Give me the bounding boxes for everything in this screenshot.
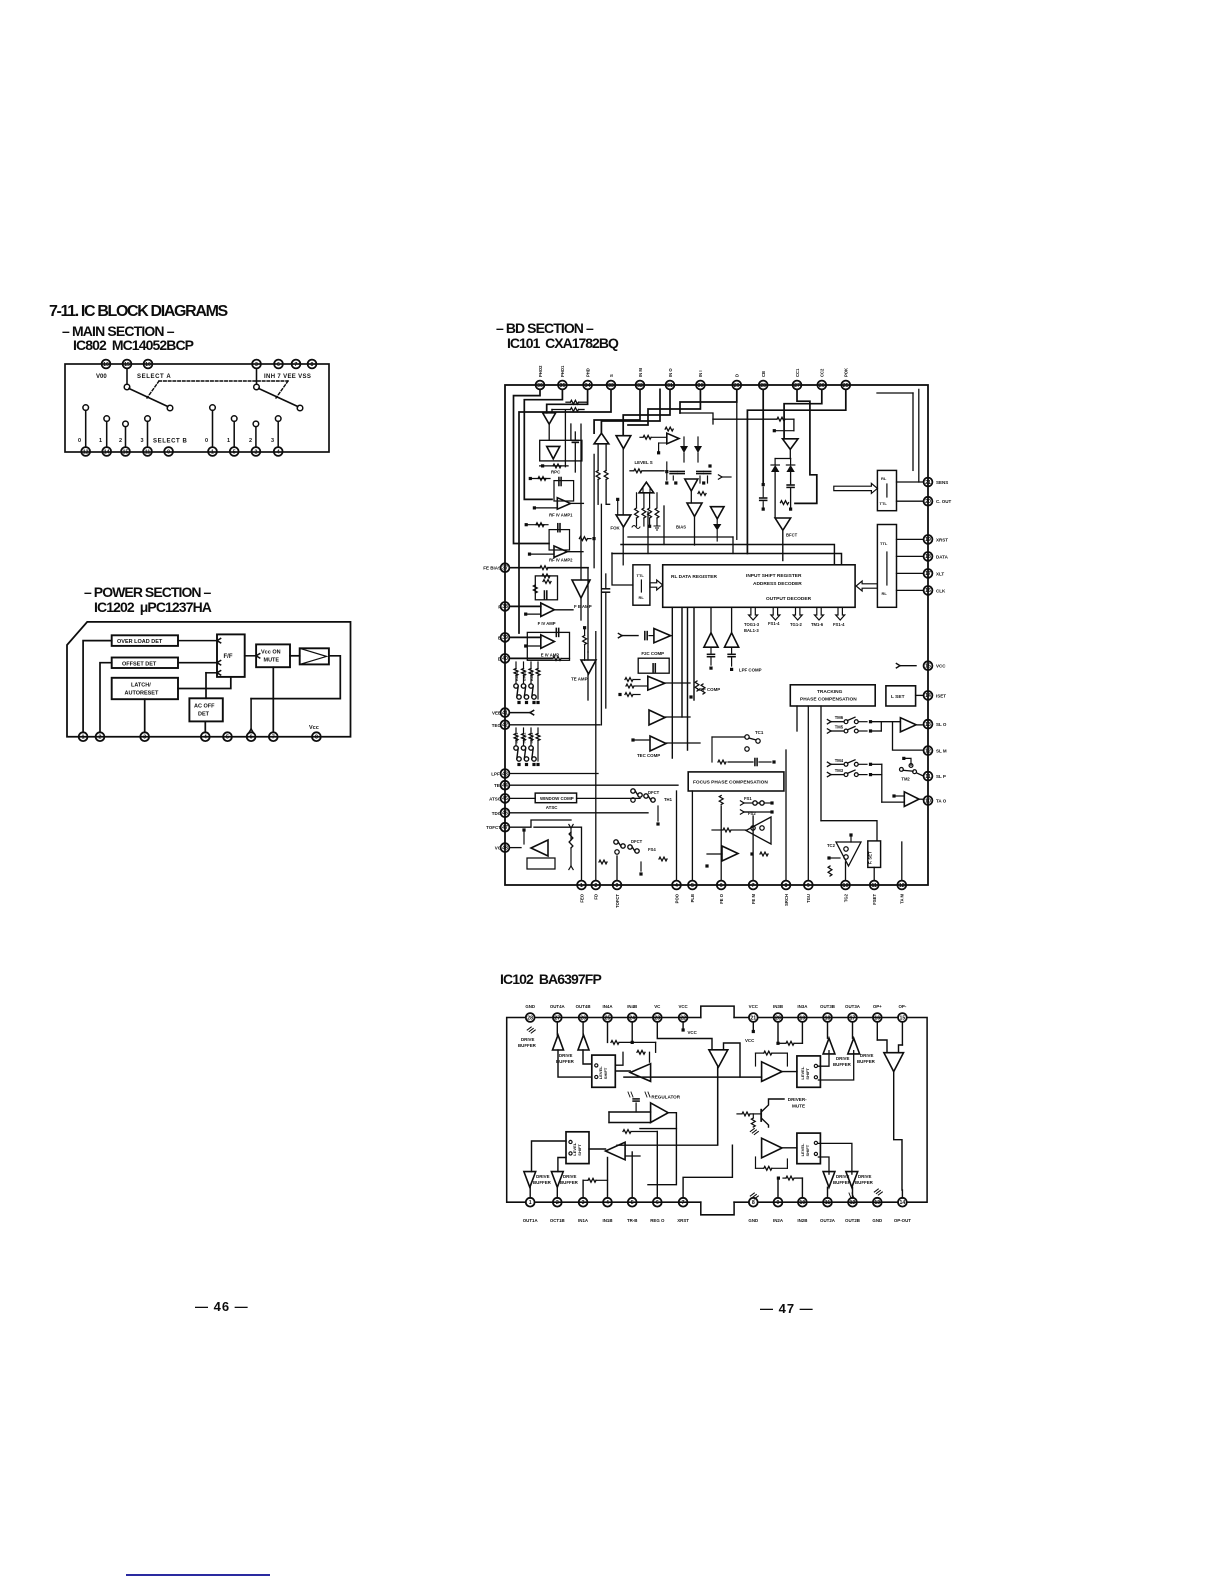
svg-text:Vcc ON: Vcc ON (261, 650, 281, 656)
svg-text:1: 1 (529, 1200, 532, 1206)
svg-text:OUT4A: OUT4A (550, 1004, 566, 1009)
svg-text:VEE: VEE (492, 711, 501, 716)
svg-text:D: D (735, 374, 740, 377)
svg-text:F E AMP: F E AMP (574, 604, 592, 609)
svg-text:FE O: FE O (719, 893, 724, 904)
svg-text:BUFFER: BUFFER (857, 1059, 876, 1064)
svg-text:23: 23 (654, 1015, 660, 1021)
svg-text:5: 5 (691, 883, 694, 889)
svg-text:FS1-4: FS1-4 (833, 622, 845, 627)
svg-text:F/F: F/F (224, 654, 233, 660)
svg-text:WINDOW COMP: WINDOW COMP (540, 796, 574, 801)
svg-text:36: 36 (537, 383, 543, 389)
svg-text:SELECT B: SELECT B (153, 439, 188, 445)
svg-text:MUTE: MUTE (264, 658, 280, 664)
svg-text:ADDRESS DECODER: ADDRESS DECODER (753, 581, 802, 587)
svg-text:VCC: VCC (749, 1004, 759, 1009)
svg-text:RL: RL (639, 595, 645, 600)
svg-text:2: 2 (254, 449, 257, 455)
svg-text:10: 10 (843, 883, 849, 889)
svg-text:VCC: VCC (936, 664, 946, 669)
svg-text:2: 2 (556, 1200, 559, 1206)
svg-text:LATCH/: LATCH/ (131, 683, 151, 689)
svg-text:LPFI: LPFI (491, 772, 501, 777)
svg-text:OUT2B: OUT2B (845, 1218, 860, 1223)
svg-text:19: 19 (925, 537, 931, 543)
svg-text:11: 11 (925, 774, 931, 780)
svg-text:OP-: OP- (898, 1004, 906, 1009)
svg-text:IN4A: IN4A (602, 1004, 613, 1009)
svg-text:13: 13 (874, 1200, 880, 1206)
svg-text:L SET: L SET (891, 694, 905, 700)
svg-text:– POWER SECTION –: – POWER SECTION – (84, 584, 212, 600)
svg-text:SHIFT: SHIFT (805, 1144, 810, 1156)
svg-text:VC: VC (654, 1004, 661, 1009)
svg-text:8: 8 (752, 1200, 755, 1206)
svg-text:RL: RL (881, 476, 887, 481)
svg-text:4: 4 (606, 1200, 609, 1206)
svg-text:13: 13 (925, 722, 931, 728)
svg-text:2: 2 (99, 735, 102, 741)
svg-text:OFFSET DET: OFFSET DET (122, 661, 157, 667)
svg-text:6: 6 (720, 883, 723, 889)
svg-text:14: 14 (104, 449, 110, 455)
svg-text:22: 22 (680, 1015, 686, 1021)
svg-text:10: 10 (925, 798, 931, 804)
svg-text:S: S (609, 374, 614, 377)
svg-text:11: 11 (825, 1200, 831, 1206)
svg-text:— 47 —: — 47 — (760, 1301, 814, 1316)
svg-text:DFCT: DFCT (648, 790, 660, 795)
svg-text:BAL3: BAL3 (530, 671, 534, 681)
svg-text:E IV AMP: E IV AMP (541, 653, 559, 658)
svg-text:VCC: VCC (678, 1004, 688, 1009)
svg-text:12: 12 (83, 449, 89, 455)
svg-text:TDC: TDC (492, 811, 502, 816)
svg-text:GND: GND (525, 1004, 535, 1009)
svg-text:16: 16 (103, 362, 109, 368)
svg-text:IN2B: IN2B (797, 1218, 807, 1223)
svg-text:DRIVE: DRIVE (860, 1053, 873, 1058)
svg-text:17: 17 (925, 571, 931, 577)
svg-text:33: 33 (608, 383, 614, 389)
svg-text:BUFFER: BUFFER (855, 1180, 874, 1185)
svg-text:34: 34 (585, 383, 591, 389)
svg-text:11: 11 (145, 449, 151, 455)
svg-text:37: 37 (502, 566, 508, 572)
svg-text:E: E (498, 635, 501, 640)
svg-text:TOFCT: TOFCT (486, 825, 501, 830)
svg-text:45: 45 (502, 796, 508, 802)
svg-text:ISET: ISET (936, 693, 946, 698)
svg-text:PHO2: PHO2 (538, 365, 543, 377)
svg-text:TOG 1: TOG 1 (515, 733, 519, 744)
svg-text:TRACKING: TRACKING (817, 689, 843, 695)
svg-text:5: 5 (631, 1200, 634, 1206)
svg-text:10: 10 (145, 362, 151, 368)
svg-text:OP-OUT: OP-OUT (894, 1218, 911, 1223)
svg-text:3: 3 (143, 735, 146, 741)
svg-text:BFCT: BFCT (786, 533, 798, 538)
svg-text:GND: GND (748, 1218, 758, 1223)
svg-text:15: 15 (900, 1015, 906, 1021)
svg-text:POK: POK (844, 368, 849, 377)
svg-text:17: 17 (850, 1015, 856, 1021)
svg-text:TTL: TTL (637, 573, 645, 578)
svg-text:LEVEL S: LEVEL S (635, 460, 653, 465)
svg-text:BAL1: BAL1 (515, 671, 519, 681)
svg-text:26: 26 (580, 1015, 586, 1021)
svg-text:47: 47 (502, 825, 508, 831)
svg-text:26: 26 (819, 383, 825, 389)
svg-text:TTL: TTL (880, 501, 888, 506)
svg-text:RL: RL (882, 591, 888, 596)
svg-text:TC1: TC1 (755, 730, 764, 735)
svg-text:FE M: FE M (751, 894, 756, 905)
svg-text:7: 7 (682, 1200, 685, 1206)
svg-text:10: 10 (800, 1200, 806, 1206)
svg-text:CLK: CLK (936, 588, 946, 593)
svg-text:PHD: PHD (585, 368, 590, 377)
svg-text:– BD SECTION –: – BD SECTION – (496, 320, 594, 336)
svg-text:DRIVE: DRIVE (836, 1056, 849, 1061)
svg-text:SHIFT: SHIFT (805, 1067, 810, 1079)
svg-text:V00: V00 (96, 374, 107, 380)
svg-text:REG O: REG O (650, 1218, 665, 1223)
svg-text:14: 14 (925, 693, 931, 699)
svg-text:IC802 MC14052BCP: IC802 MC14052BCP (73, 337, 194, 353)
svg-text:TEC COMP: TEC COMP (637, 753, 660, 758)
svg-text:28: 28 (760, 383, 766, 389)
svg-text:RF IV AMP2: RF IV AMP2 (549, 558, 573, 563)
svg-text:IC1202 μPC1237HA: IC1202 μPC1237HA (94, 599, 212, 615)
svg-text:21: 21 (925, 480, 931, 486)
svg-text:DRIVE: DRIVE (858, 1174, 871, 1179)
svg-text:FEO: FEO (579, 893, 584, 902)
svg-text:3: 3 (255, 362, 258, 368)
svg-text:3: 3 (271, 438, 274, 444)
svg-text:OVER LOAD DET: OVER LOAD DET (117, 639, 163, 645)
svg-text:32: 32 (637, 383, 643, 389)
svg-text:TC2: TC2 (827, 843, 836, 848)
svg-text:FE BIAS: FE BIAS (483, 566, 501, 571)
svg-text:39: 39 (502, 635, 508, 641)
svg-text:4: 4 (675, 883, 678, 889)
svg-text:IC101 CXA1782BQ: IC101 CXA1782BQ (507, 335, 619, 351)
svg-text:GND: GND (872, 1218, 882, 1223)
svg-text:TM5: TM5 (835, 725, 844, 730)
svg-text:DRIVER-: DRIVER- (788, 1097, 807, 1102)
svg-text:18: 18 (825, 1015, 831, 1021)
svg-text:24: 24 (629, 1015, 635, 1021)
svg-text:— 46 —: — 46 — (195, 1299, 249, 1314)
svg-text:VCC: VCC (688, 1030, 698, 1035)
svg-text:POO: POO (674, 893, 679, 903)
svg-text:TEO: TEO (492, 723, 502, 728)
svg-text:2: 2 (594, 883, 597, 889)
svg-text:9: 9 (807, 883, 810, 889)
svg-text:TGU: TGU (806, 894, 811, 903)
svg-text:IN M: IN M (638, 368, 643, 377)
svg-text:BUFFER: BUFFER (560, 1180, 579, 1185)
svg-text:16: 16 (874, 1015, 880, 1021)
svg-text:RL DATA REGISTER: RL DATA REGISTER (671, 574, 717, 580)
svg-text:F. SET: F. SET (868, 851, 873, 864)
svg-text:TH1: TH1 (664, 797, 673, 802)
svg-text:BAL2: BAL2 (523, 671, 527, 681)
svg-text:44: 44 (502, 783, 508, 789)
svg-text:OUT4B: OUT4B (576, 1004, 591, 1009)
svg-text:8: 8 (315, 735, 318, 741)
svg-text:3: 3 (141, 438, 144, 444)
svg-text:15: 15 (123, 449, 129, 455)
svg-text:12: 12 (899, 883, 905, 889)
svg-text:IN1A: IN1A (578, 1218, 589, 1223)
svg-text:DFCT: DFCT (631, 839, 643, 844)
svg-text:29: 29 (734, 383, 740, 389)
svg-text:FSET: FSET (872, 894, 877, 905)
svg-text:PHASE COMPENSATION: PHASE COMPENSATION (800, 697, 857, 703)
svg-text:XLT: XLT (936, 571, 944, 576)
svg-text:TA O: TA O (936, 799, 947, 804)
svg-text:TM4: TM4 (835, 758, 844, 763)
svg-text:OUT3B: OUT3B (820, 1004, 835, 1009)
svg-text:3: 3 (616, 883, 619, 889)
svg-text:OUTPUT DECODER: OUTPUT DECODER (766, 596, 812, 602)
svg-text:SENS: SENS (936, 480, 948, 485)
svg-text:BUFFER: BUFFER (833, 1180, 852, 1185)
svg-text:25: 25 (843, 383, 849, 389)
svg-text:SHIFT: SHIFT (577, 1144, 582, 1156)
svg-text:TR-B: TR-B (627, 1218, 638, 1223)
svg-text:DRIVE: DRIVE (536, 1174, 549, 1179)
svg-text:48: 48 (502, 845, 508, 851)
svg-text:15: 15 (124, 362, 130, 368)
svg-text:5: 5 (226, 735, 229, 741)
svg-text:1: 1 (580, 883, 583, 889)
svg-text:VC: VC (495, 846, 502, 851)
svg-text:SHIFT: SHIFT (603, 1067, 608, 1079)
svg-text:TM6: TM6 (835, 715, 844, 720)
svg-text:ATSC: ATSC (489, 796, 502, 801)
svg-text:1: 1 (227, 438, 230, 444)
svg-text:TTL: TTL (880, 541, 888, 546)
svg-text:8: 8 (785, 883, 788, 889)
svg-text:IN3B: IN3B (773, 1004, 783, 1009)
svg-text:28: 28 (527, 1015, 533, 1021)
svg-text:4: 4 (204, 735, 207, 741)
svg-text:SRCH: SRCH (784, 894, 789, 906)
svg-text:SL P: SL P (936, 774, 946, 779)
svg-text:TG1-2: TG1-2 (790, 622, 803, 627)
svg-text:46: 46 (502, 811, 508, 817)
svg-text:PLB: PLB (690, 894, 695, 902)
svg-text:TA M: TA M (900, 894, 905, 904)
svg-text:IN4B: IN4B (627, 1004, 637, 1009)
svg-text:C. OUT: C. OUT (936, 499, 952, 504)
svg-text:BUFFER: BUFFER (518, 1043, 537, 1048)
svg-text:XRST: XRST (677, 1218, 689, 1223)
svg-text:INPUT SHIFT REGISTER: INPUT SHIFT REGISTER (746, 573, 802, 579)
svg-text:SELECT A: SELECT A (137, 374, 171, 380)
svg-text:1: 1 (82, 735, 85, 741)
svg-text:0: 0 (205, 438, 208, 444)
svg-text:CC2: CC2 (820, 368, 825, 377)
svg-text:XRST: XRST (936, 537, 948, 542)
svg-text:1: 1 (211, 449, 214, 455)
svg-text:OUT2A: OUT2A (820, 1218, 836, 1223)
svg-text:7: 7 (295, 362, 298, 368)
svg-text:FOCUS PHASE COMPENSATION: FOCUS PHASE COMPENSATION (693, 780, 768, 786)
svg-text:F IV AMP: F IV AMP (538, 621, 556, 626)
svg-text:25: 25 (605, 1015, 611, 1021)
svg-text:15: 15 (925, 664, 931, 670)
svg-text:7: 7 (272, 735, 275, 741)
svg-text:21: 21 (750, 1015, 756, 1021)
svg-text:HPF COMP: HPF COMP (697, 687, 720, 692)
svg-text:F: F (498, 604, 501, 609)
svg-text:AC OFF: AC OFF (194, 704, 215, 710)
svg-text:20: 20 (775, 1015, 781, 1021)
svg-text:2: 2 (119, 438, 122, 444)
svg-text:TOG 2: TOG 2 (523, 733, 527, 744)
svg-text:DRIVE: DRIVE (559, 1053, 572, 1058)
svg-text:19: 19 (800, 1015, 806, 1021)
svg-text:FS1: FS1 (744, 796, 752, 801)
svg-text:6: 6 (250, 735, 253, 741)
svg-text:27: 27 (554, 1015, 560, 1021)
svg-text:FS2: FS2 (748, 811, 756, 816)
svg-text:OCT1B: OCT1B (550, 1218, 565, 1223)
svg-text:27: 27 (794, 383, 800, 389)
svg-text:30: 30 (698, 383, 704, 389)
svg-text:IN1B: IN1B (602, 1218, 612, 1223)
svg-text:TE AMP: TE AMP (571, 677, 587, 682)
svg-text:41: 41 (502, 710, 508, 716)
svg-text:5: 5 (233, 449, 236, 455)
svg-text:BUFFER: BUFFER (556, 1059, 575, 1064)
svg-text:43: 43 (502, 771, 508, 777)
svg-text:VCC: VCC (745, 1038, 755, 1043)
svg-text:6: 6 (656, 1200, 659, 1206)
svg-text:3: 3 (582, 1200, 585, 1206)
svg-text:TEI: TEI (494, 783, 501, 788)
svg-text:TOG1-3: TOG1-3 (744, 622, 760, 627)
svg-text:42: 42 (502, 723, 508, 729)
svg-text:2: 2 (249, 438, 252, 444)
svg-text:6: 6 (277, 362, 280, 368)
svg-text:0: 0 (78, 438, 81, 444)
svg-text:RF IV AMP1: RF IV AMP1 (549, 513, 573, 518)
svg-text:TM2: TM2 (901, 777, 910, 782)
svg-text:TOFCT: TOFCT (615, 894, 620, 908)
svg-text:4: 4 (277, 449, 280, 455)
svg-text:12: 12 (925, 748, 931, 754)
svg-text:1: 1 (99, 438, 102, 444)
svg-text:AUTORESET: AUTORESET (125, 691, 159, 697)
svg-text:F2C COMP: F2C COMP (641, 651, 664, 656)
svg-text:IN O: IN O (668, 368, 673, 377)
svg-text:ATSC: ATSC (546, 805, 558, 810)
svg-text:31: 31 (667, 383, 673, 389)
svg-text:14: 14 (900, 1200, 906, 1206)
svg-text:FOK: FOK (610, 526, 620, 531)
svg-text:BAL1-3: BAL1-3 (744, 628, 759, 633)
svg-text:38: 38 (502, 604, 508, 610)
svg-text:7-11. IC BLOCK DIAGRAMS: 7-11. IC BLOCK DIAGRAMS (49, 303, 229, 320)
svg-text:PHO1: PHO1 (560, 365, 565, 377)
svg-text:BIAS: BIAS (676, 525, 686, 530)
svg-text:OUT3A: OUT3A (845, 1004, 861, 1009)
svg-text:IC102 BA6397FP: IC102 BA6397FP (500, 971, 601, 987)
svg-text:40: 40 (502, 656, 508, 662)
svg-text:OUT1A: OUT1A (523, 1218, 539, 1223)
svg-text:FD: FD (594, 894, 599, 900)
svg-text:REGULATOR: REGULATOR (651, 1095, 680, 1100)
svg-text:DET: DET (198, 712, 210, 718)
svg-text:RPC: RPC (551, 470, 561, 475)
svg-text:18: 18 (925, 554, 931, 560)
svg-text:INH 7 VEE VSS: INH 7 VEE VSS (264, 374, 311, 380)
svg-text:20: 20 (925, 499, 931, 505)
svg-text:BUFFER: BUFFER (833, 1062, 852, 1067)
svg-text:SL M: SL M (936, 749, 947, 754)
svg-text:9: 9 (167, 449, 170, 455)
svg-text:CC1: CC1 (795, 368, 800, 377)
svg-text:7: 7 (752, 883, 755, 889)
svg-text:LPF COMP: LPF COMP (739, 668, 762, 673)
svg-text:DRIVE: DRIVE (563, 1174, 576, 1179)
svg-text:16: 16 (925, 588, 931, 594)
svg-text:TG2: TG2 (843, 893, 848, 902)
svg-text:SL O: SL O (936, 722, 947, 727)
svg-text:35: 35 (560, 383, 566, 389)
svg-text:8: 8 (311, 362, 314, 368)
svg-text:TM3: TM3 (835, 768, 844, 773)
svg-text:DRIVE: DRIVE (521, 1037, 534, 1042)
svg-text:DATA: DATA (936, 554, 949, 559)
svg-text:DRIVE: DRIVE (836, 1174, 849, 1179)
svg-text:IN I: IN I (698, 370, 703, 377)
svg-text:FS1-4: FS1-4 (768, 621, 780, 626)
svg-text:CB: CB (761, 371, 766, 377)
svg-text:TOG 3: TOG 3 (530, 733, 534, 744)
svg-text:11: 11 (871, 883, 877, 889)
svg-text:Vcc: Vcc (309, 725, 319, 731)
svg-text:TM1-6: TM1-6 (811, 622, 824, 627)
svg-text:BUFFER: BUFFER (533, 1180, 552, 1185)
svg-text:9: 9 (777, 1200, 780, 1206)
svg-text:MUTE: MUTE (792, 1104, 805, 1109)
svg-text:FS4: FS4 (648, 847, 656, 852)
svg-text:IN3A: IN3A (797, 1004, 808, 1009)
svg-text:12: 12 (850, 1200, 856, 1206)
svg-text:OP+: OP+ (873, 1004, 882, 1009)
svg-text:IN2A: IN2A (773, 1218, 784, 1223)
